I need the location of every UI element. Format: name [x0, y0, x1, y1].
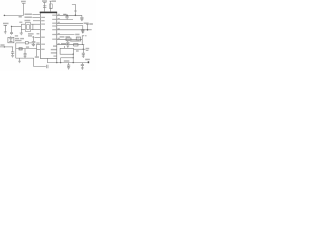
label wire8 [61, 43, 66, 44]
wire bus left y48.6 [16, 48, 37, 50]
connector end marks [86, 48, 90, 50]
ground C11 [81, 32, 84, 34]
left pin stub 5 [37, 43, 41, 45]
ground left bars [4, 32, 7, 34]
capacitor C4 to ground [32, 38, 36, 44]
node dot wire5 [87, 29, 89, 31]
dot on K1 bottom [73, 54, 74, 55]
series box L1 [25, 42, 28, 44]
right wire 3 [57, 22, 83, 24]
wire crystal right bottom to IC [31, 29, 41, 31]
pin into K1 [63, 46, 65, 48]
label C10 [63, 14, 66, 15]
ground blob [18, 61, 21, 63]
node dot VCC2/wire1 [75, 15, 77, 17]
label C1 [42, 0, 47, 2]
right wire 6 [57, 34, 75, 36]
wire bottom left [16, 57, 34, 59]
wire1 corner cap to ground [80, 15, 83, 19]
ground C13 [82, 56, 85, 58]
ground C4 [32, 44, 35, 46]
node dot [83, 49, 84, 50]
ground flag left [4, 25, 7, 32]
labels above wire8 [70, 40, 79, 41]
ground C8 [67, 68, 70, 70]
ground C6 [24, 56, 27, 58]
net label 2 [25, 17, 32, 19]
labels under wire6 [60, 36, 65, 37]
wire input left [4, 14, 24, 16]
vline wire B to bottom [60, 58, 62, 63]
cap C13 [82, 53, 85, 56]
IC interior pin labels right [52, 15, 56, 16]
resistor R2 box [74, 44, 78, 46]
cap C12 to ground [66, 41, 69, 45]
label near relay left [76, 50, 79, 51]
ground stub [19, 58, 21, 61]
vline wire8 down [82, 45, 84, 53]
relay box K1 [60, 48, 73, 54]
label above bottom wire [64, 60, 70, 61]
ground C12 [66, 46, 69, 48]
label wire3 end [84, 23, 89, 25]
label bottom right [85, 59, 90, 61]
top pin cap C2 [49, 1, 52, 12]
left pin stub 6 [37, 48, 41, 50]
label wire6 [75, 34, 79, 36]
ground wire1 [81, 19, 84, 21]
node dot [11, 26, 12, 27]
node dot [4, 46, 5, 47]
vertical join left [15, 43, 17, 58]
label VCC1 text [21, 1, 26, 3]
node dot [60, 62, 61, 63]
crystal Y1 outer can [25, 23, 30, 32]
capacitor C5 to ground [11, 47, 14, 55]
left pin stub 2 [32, 17, 40, 19]
top pin cap C1 [43, 2, 46, 12]
right wire 5 [57, 29, 92, 31]
left pin stub 3 [33, 20, 40, 22]
label C2 [52, 0, 56, 2]
IC interior label block [53, 45, 57, 46]
label gnd text [3, 23, 9, 25]
ground C5 [11, 56, 14, 58]
label above crystal cap [19, 22, 22, 23]
bottom end pad [88, 61, 90, 63]
IC bottom pin stub [46, 58, 48, 62]
dot bottom wire [73, 62, 74, 63]
wire vertical left of IC [36, 44, 38, 58]
IC interior pin labels left [41, 14, 78, 57]
power flag VCC2 [72, 4, 76, 15]
capacitor C9 to ground [81, 63, 84, 68]
labels above crystal bottom [28, 33, 34, 34]
ground C9 [81, 68, 84, 70]
wire B under K1 [61, 57, 74, 59]
diode D1 marks [9, 39, 12, 42]
crystal plate bar [32, 24, 34, 30]
label under wire [19, 16, 22, 18]
connector box J2 [76, 37, 80, 41]
IC U1 body [40, 12, 57, 58]
wire crystal right top to IC [31, 23, 41, 25]
dot on wire B [73, 57, 74, 58]
wire corner down [34, 58, 46, 66]
capacitor C8 to ground [67, 63, 70, 68]
wire crystal left top [21, 23, 25, 25]
fuse F1 cross [19, 48, 22, 50]
IC U1 top bar [40, 12, 57, 14]
capacitor C7 series [46, 65, 48, 69]
tick top of D1 [10, 36, 12, 37]
right wire 7 [57, 38, 83, 40]
wire to crystal net [12, 25, 22, 27]
label left edge [0, 44, 4, 46]
node dot input [4, 15, 6, 17]
wire K1 right [74, 48, 86, 50]
left pin stub 4 [35, 36, 41, 38]
label above [26, 46, 29, 47]
tick on VCC2 line [74, 10, 77, 12]
wire crystal left vertical [20, 24, 22, 33]
net label 1 [25, 14, 32, 16]
ground crystal [20, 33, 23, 35]
cap C10 on wire1 [66, 15, 68, 17]
power flag VCC1 [22, 3, 26, 15]
net label 3 [25, 20, 31, 22]
right wire 4 [57, 25, 83, 27]
wire crystal left bottom [21, 29, 25, 31]
IC corner pin stub [56, 58, 58, 62]
cap C11 to ground [81, 26, 84, 32]
crystal Y1 inner plate [27, 25, 30, 30]
bottom wire [47, 62, 88, 64]
capacitor C3 [10, 26, 13, 34]
label right top [89, 23, 93, 25]
vline B to K1 [72, 54, 74, 62]
label near corner [35, 56, 39, 58]
stub up from dot [86, 24, 89, 30]
right wire 1 [57, 14, 82, 16]
connector bracket right [82, 36, 84, 45]
pin numbers right wires [58, 14, 60, 15]
J2 inner marks [77, 38, 79, 40]
wire mid left [16, 42, 25, 44]
capacitor C6 to ground [24, 49, 27, 56]
label pin4 [36, 42, 39, 43]
label near D1 [15, 35, 18, 36]
right wire 2 [57, 19, 73, 21]
labels row above wire [15, 38, 19, 39]
resistor R1 box [66, 38, 71, 41]
node dot [56, 62, 57, 63]
fuse F1 box [19, 48, 22, 50]
plus marker [32, 36, 34, 38]
wire after L1 [28, 42, 33, 44]
diode D1 box [8, 37, 14, 42]
right wire 8 [57, 44, 84, 46]
left pin stub 1 [32, 14, 40, 16]
wire lower left [0, 46, 13, 48]
